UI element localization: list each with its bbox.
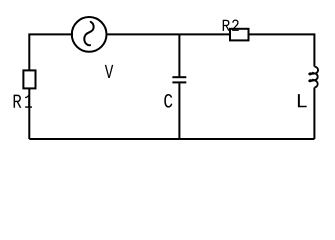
- AC voltage source V (circle): [72, 17, 107, 52]
- label V: [105, 65, 113, 78]
- wire: bottom rail right segment: [179, 138, 314, 140]
- wire: R1 top to AC source left (top-left corner): [29, 34, 73, 70]
- capacitor C top plate: [172, 76, 186, 78]
- label R1: [14, 95, 32, 108]
- wire: bottom-left up to R1 bottom: [28, 88, 30, 139]
- resistor R1 (body): [23, 70, 35, 88]
- wire: inductor bottom to bottom-right corner: [313, 88, 315, 140]
- label C: [164, 94, 172, 108]
- resistor R2 (body): [230, 29, 249, 41]
- wire: bottom rail left segment: [29, 138, 179, 140]
- wire: R2 right to inductor top (top-right corner): [249, 34, 315, 66]
- wire: AC source right to capacitor junction: [106, 33, 180, 35]
- wire: capacitor bottom lead: [178, 83, 180, 139]
- wire: junction to R2 left: [179, 33, 230, 35]
- capacitor C bottom plate: [172, 81, 186, 83]
- label R2: [223, 20, 239, 31]
- wire: capacitor top lead: [178, 34, 180, 76]
- inductor L (coil): [309, 67, 318, 88]
- label L: [298, 94, 307, 107]
